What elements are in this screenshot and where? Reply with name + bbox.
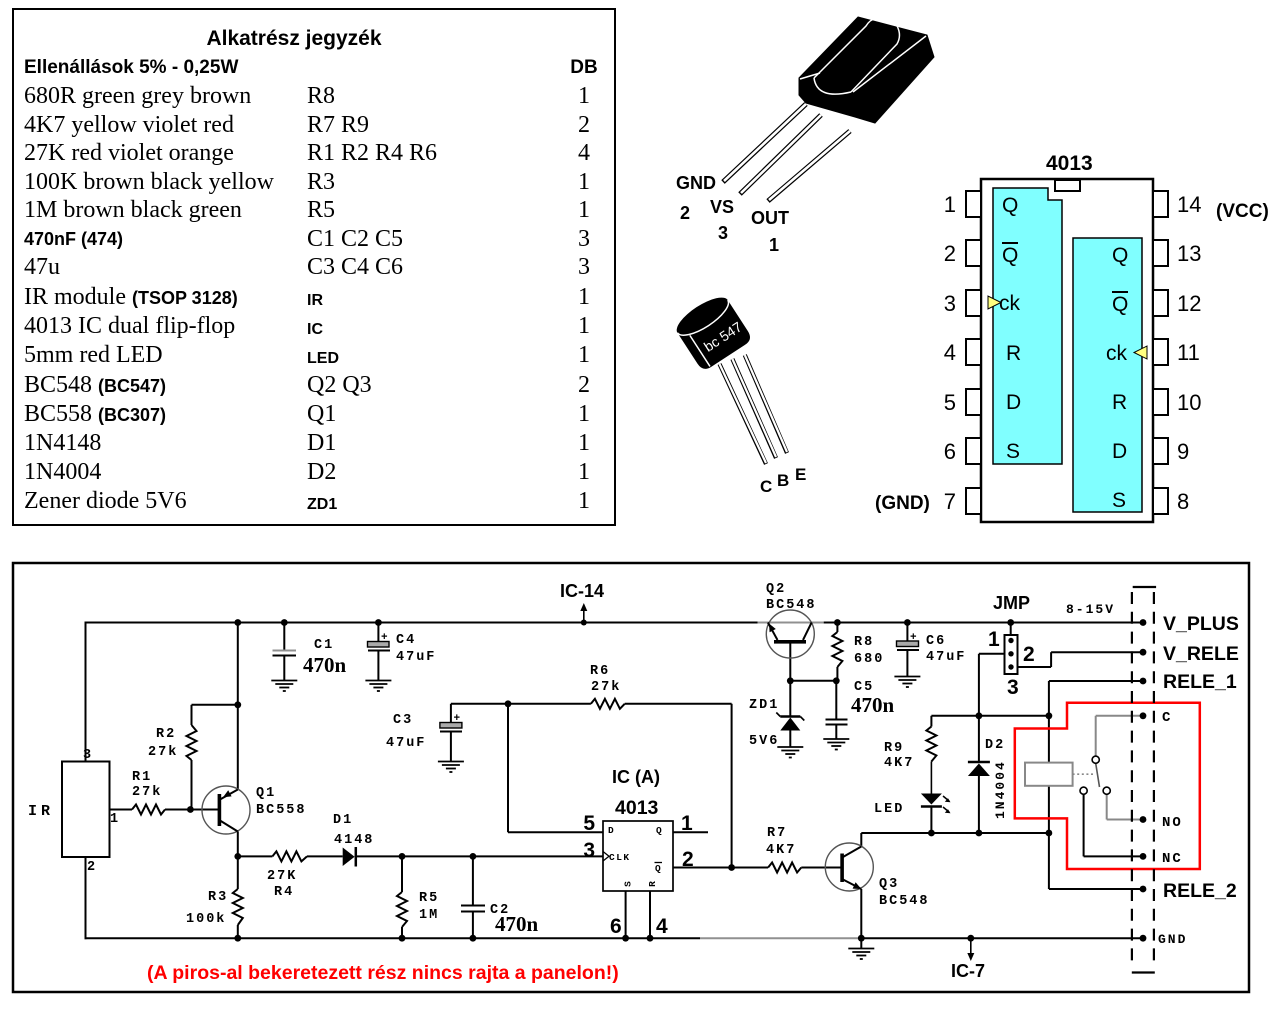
svg-text:(VCC): (VCC) (1216, 201, 1269, 222)
svg-text:R2: R2 (156, 727, 176, 742)
svg-text:1M: 1M (419, 908, 439, 923)
svg-text:IC (A): IC (A) (612, 767, 660, 787)
svg-text:Q: Q (1002, 244, 1018, 267)
svg-text:RELE_1: RELE_1 (1163, 671, 1237, 693)
svg-text:27k: 27k (148, 745, 178, 760)
svg-text:3: 3 (718, 223, 728, 243)
svg-text:8: 8 (1177, 489, 1189, 514)
svg-text:Q: Q (656, 825, 662, 836)
svg-text:D1: D1 (333, 813, 353, 828)
svg-text:R8: R8 (854, 635, 874, 650)
svg-text:R3: R3 (208, 890, 228, 905)
svg-text:4: 4 (656, 915, 668, 938)
svg-text:C5: C5 (854, 680, 874, 695)
svg-text:ZD1: ZD1 (749, 698, 779, 713)
svg-text:C: C (1162, 710, 1172, 726)
svg-text:R4: R4 (274, 885, 294, 900)
svg-text:1: 1 (110, 812, 120, 827)
svg-text:D: D (1006, 391, 1021, 414)
svg-text:C: C (760, 477, 772, 496)
svg-text:5V6: 5V6 (749, 734, 779, 749)
svg-text:5: 5 (944, 390, 956, 415)
svg-text:Q: Q (1002, 194, 1018, 217)
svg-text:13: 13 (1177, 241, 1201, 266)
svg-text:Q2: Q2 (766, 582, 786, 597)
svg-text:9: 9 (1177, 439, 1189, 464)
svg-text:27k: 27k (591, 680, 621, 695)
svg-text:3: 3 (944, 291, 956, 316)
svg-text:BC558: BC558 (256, 803, 307, 818)
svg-text:4K7: 4K7 (766, 843, 796, 858)
svg-text:RELE_2: RELE_2 (1163, 880, 1237, 902)
svg-text:S: S (1006, 440, 1020, 463)
svg-text:VS: VS (710, 197, 734, 217)
svg-text:1: 1 (681, 812, 693, 835)
svg-text:JMP: JMP (993, 593, 1030, 613)
svg-text:CLK: CLK (609, 852, 631, 863)
svg-text:680: 680 (854, 652, 884, 667)
svg-text:NC: NC (1162, 851, 1183, 867)
svg-text:D: D (608, 825, 614, 836)
svg-text:Q3: Q3 (879, 877, 899, 892)
svg-text:4013: 4013 (1046, 152, 1093, 175)
svg-text:4013: 4013 (615, 797, 659, 819)
svg-text:Q: Q (1112, 244, 1128, 267)
svg-text:V_RELE: V_RELE (1163, 643, 1239, 665)
svg-text:4: 4 (944, 340, 956, 365)
svg-text:V_PLUS: V_PLUS (1163, 613, 1239, 635)
svg-text:R: R (647, 881, 658, 887)
svg-text:R: R (1112, 391, 1127, 414)
svg-text:2: 2 (87, 860, 97, 875)
svg-text:ck: ck (1106, 342, 1128, 365)
svg-text:NO: NO (1162, 815, 1183, 831)
svg-text:100k: 100k (186, 912, 226, 927)
svg-text:1N4004: 1N4004 (993, 760, 1008, 819)
svg-text:R5: R5 (419, 891, 439, 906)
svg-text:8-15V: 8-15V (1066, 602, 1115, 617)
svg-text:LED: LED (874, 802, 904, 817)
svg-text:Q: Q (1112, 293, 1128, 316)
svg-text:11: 11 (1177, 340, 1200, 365)
svg-text:6: 6 (610, 915, 622, 938)
svg-text:1: 1 (944, 192, 956, 217)
svg-text:GND: GND (676, 173, 716, 193)
svg-text:S: S (1112, 489, 1126, 512)
svg-text:(GND): (GND) (875, 493, 930, 514)
svg-text:2: 2 (680, 203, 690, 223)
svg-text:D: D (1112, 440, 1127, 463)
svg-text:BC548: BC548 (766, 598, 817, 613)
svg-text:1: 1 (769, 235, 779, 255)
svg-text:2: 2 (1023, 643, 1035, 666)
svg-text:5: 5 (583, 812, 595, 835)
svg-text:2: 2 (682, 848, 694, 871)
svg-text:C3: C3 (393, 713, 413, 728)
svg-text:(A piros-al bekeretezett rész: (A piros-al bekeretezett rész nincs rajt… (147, 962, 619, 984)
svg-text:R6: R6 (590, 664, 610, 679)
svg-text:+: + (381, 632, 388, 644)
svg-text:ck: ck (999, 292, 1021, 315)
svg-text:1: 1 (988, 628, 1000, 651)
svg-text:27k: 27k (132, 785, 162, 800)
svg-text:Q: Q (655, 863, 661, 874)
svg-text:470n: 470n (495, 912, 539, 936)
svg-text:OUT: OUT (751, 208, 789, 228)
svg-text:4K7: 4K7 (884, 756, 914, 771)
svg-text:B: B (777, 471, 789, 490)
svg-text:3: 3 (1007, 676, 1019, 699)
svg-text:10: 10 (1177, 390, 1201, 415)
svg-text:470n: 470n (303, 653, 347, 677)
svg-text:E: E (795, 465, 806, 484)
svg-text:C1: C1 (314, 638, 334, 653)
svg-text:C4: C4 (396, 633, 416, 648)
svg-text:+: + (910, 632, 917, 644)
svg-text:Q1: Q1 (256, 786, 276, 801)
svg-text:R7: R7 (767, 826, 787, 841)
svg-text:47uF: 47uF (396, 650, 436, 665)
svg-text:4148: 4148 (334, 833, 374, 848)
svg-text:+: + (454, 713, 461, 725)
svg-text:GND: GND (1158, 932, 1187, 947)
svg-text:12: 12 (1177, 291, 1201, 316)
svg-text:47uF: 47uF (926, 650, 966, 665)
svg-text:IC-7: IC-7 (951, 961, 985, 981)
svg-text:BC548: BC548 (879, 894, 930, 909)
svg-text:IR: IR (28, 803, 54, 820)
svg-text:6: 6 (944, 439, 956, 464)
svg-text:47uF: 47uF (386, 736, 426, 751)
svg-text:C6: C6 (926, 634, 946, 649)
svg-text:2: 2 (944, 241, 956, 266)
svg-text:R: R (1006, 342, 1021, 365)
svg-text:IC-14: IC-14 (560, 581, 604, 601)
svg-text:R9: R9 (884, 741, 904, 756)
svg-text:7: 7 (944, 489, 956, 514)
svg-text:3: 3 (583, 839, 595, 862)
svg-text:D2: D2 (985, 738, 1005, 753)
svg-text:S: S (623, 881, 634, 887)
svg-text:3: 3 (83, 748, 93, 763)
svg-text:14: 14 (1177, 192, 1201, 217)
svg-text:27K: 27K (267, 869, 297, 884)
svg-text:R1: R1 (132, 770, 152, 785)
svg-text:470n: 470n (851, 693, 895, 717)
